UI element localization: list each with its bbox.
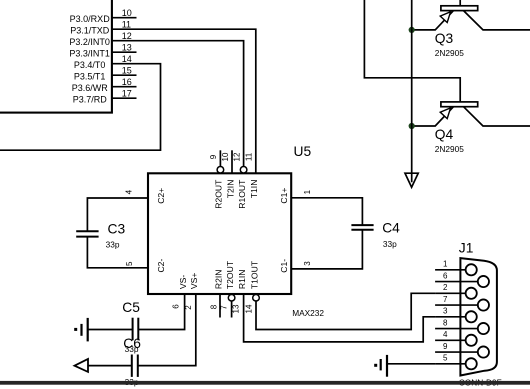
8051 pin 10 P3.0/RXD [70,8,137,24]
svg-text:C1-: C1- [279,259,289,273]
svg-text:R2OUT: R2OUT [214,179,224,209]
svg-text:3: 3 [443,307,448,316]
svg-text:6: 6 [443,271,448,280]
svg-text:T1OUT: T1OUT [249,260,259,289]
svg-text:C1+: C1+ [279,188,289,204]
8051 pin 17 P3.7/RD [73,89,137,105]
vertical rail through Q3/Q4 emitters [411,0,413,182]
U5 pin 7 T2OUT stub [220,260,235,317]
8051 pin 12 P3.2/INT0 [69,31,136,47]
wire C6 to arrow [87,365,132,367]
U5 pin 4 C2+ stub [124,188,165,204]
svg-text:C5: C5 [122,300,140,315]
svg-text:8: 8 [210,304,219,309]
svg-text:2N2905: 2N2905 [435,144,464,154]
J1 pin 3 [435,307,477,323]
svg-text:11: 11 [245,152,254,161]
wire P3.2/INT0 to U5 R1OUT bubble [137,41,244,167]
svg-text:P3.0/RXD: P3.0/RXD [70,14,111,24]
junction dot Q3 emitter [409,27,415,33]
svg-text:7: 7 [220,305,229,310]
8051 pin 14 P3.4/T0 [74,54,137,70]
capacitor C6 [123,336,141,387]
J1 pin 5 [435,354,477,370]
svg-text:C3: C3 [108,222,126,237]
ground arrow at C6 [75,359,89,372]
svg-text:10: 10 [221,152,230,161]
power terminal at C5 [74,318,88,342]
svg-text:5: 5 [125,261,134,266]
svg-text:14: 14 [245,304,254,313]
svg-text:P3.4/T0: P3.4/T0 [74,60,106,70]
svg-text:9: 9 [443,342,448,351]
J1 pin 1 [435,260,477,276]
svg-text:6: 6 [172,304,181,309]
svg-text:16: 16 [122,77,132,87]
8051 pin 11 P3.1/TXD [70,20,136,36]
svg-text:P3.1/TXD: P3.1/TXD [70,26,110,36]
J1 pin 6 [435,271,489,287]
svg-text:12: 12 [232,152,241,161]
J1 pin 8 [435,318,489,334]
svg-text:9: 9 [209,154,218,159]
transistor Q3 2N2905 [412,0,530,58]
U5 pin 2 VS+ stub [138,273,199,366]
svg-text:VS+: VS+ [189,273,199,289]
wire P3.1/TXD to U5 T1IN [137,29,256,173]
transistor Q4 2N2905 [364,0,530,154]
svg-text:T2IN: T2IN [225,180,235,199]
svg-text:T2OUT: T2OUT [225,260,235,289]
U5 pin 8 R2IN stub [210,270,224,318]
junction dot Q4 emitter [409,123,415,129]
capacitor C4 [291,198,400,269]
wire U5 R1IN to J1 pin 3 [244,294,436,342]
svg-text:4: 4 [443,330,448,339]
svg-text:VS-: VS- [178,275,188,289]
8051 port box [0,0,112,113]
svg-text:U5: U5 [294,144,312,159]
svg-text:J1: J1 [459,241,474,256]
svg-text:12: 12 [122,31,132,41]
svg-text:13: 13 [232,304,241,313]
capacitor C5 [122,300,140,354]
svg-text:3: 3 [303,261,312,266]
U5 pin 3 C1- stub [279,259,312,273]
svg-text:MAX232: MAX232 [292,308,324,318]
svg-text:8: 8 [443,318,448,327]
bottom border bar [0,381,530,385]
svg-text:P3.5/T1: P3.5/T1 [74,72,106,82]
svg-text:11: 11 [122,20,131,30]
svg-text:C4: C4 [382,220,400,235]
connector J1 CONN-D9F [459,241,497,376]
8051 pin 15 P3.5/T1 [74,66,137,82]
svg-text:1: 1 [303,189,312,194]
svg-text:C6: C6 [123,336,141,351]
power terminal at J1 pin 5 [374,355,387,377]
svg-text:P3.7/RD: P3.7/RD [73,95,108,105]
capacitor C3 [76,198,148,268]
U5 pin 13 R1IN stub [232,270,247,314]
U5 pin 12 R1OUT stub [232,152,247,209]
U5 pin 10 T2IN stub [221,150,236,198]
wire C5 to terminal [88,329,133,331]
svg-text:P3.6/WR: P3.6/WR [72,83,109,93]
svg-text:Q4: Q4 [435,127,454,142]
ground arrow below rail [405,173,418,187]
svg-text:C2-: C2- [156,259,166,273]
svg-text:15: 15 [122,66,132,76]
wire P3.4/T0 to left edge [0,64,161,151]
svg-text:17: 17 [122,89,132,99]
svg-text:T1IN: T1IN [249,180,259,199]
svg-text:C2+: C2+ [156,188,166,204]
svg-text:R1OUT: R1OUT [237,179,247,209]
svg-text:14: 14 [122,54,132,64]
U5 pin 14 T1OUT stub [245,260,260,313]
8051 pin 16 P3.6/WR [72,77,137,93]
8051 pin 13 P3.3/INT1 [69,43,136,59]
svg-text:R1IN: R1IN [237,270,247,290]
U5 pin 5 C2- stub [125,259,166,273]
svg-text:4: 4 [124,189,133,194]
J1 pin 4 [435,330,477,346]
svg-text:33p: 33p [383,239,397,249]
U5 pin 11 T1IN stub [245,152,260,198]
svg-text:2N2905: 2N2905 [435,48,464,58]
J1 pin 2 [435,283,477,299]
svg-text:7: 7 [443,295,448,304]
op-amp U5 MAX232 box [148,173,291,294]
svg-text:13: 13 [122,43,132,53]
U5 pin 6 VS- stub [138,275,188,330]
svg-text:5: 5 [443,354,448,363]
svg-text:Q3: Q3 [435,31,454,46]
svg-text:P3.2/INT0: P3.2/INT0 [69,37,110,47]
svg-text:33p: 33p [106,239,120,249]
J1 pin 9 [435,342,489,358]
wire J1 pin 5 to power terminal [387,363,435,365]
J1 pin 7 [435,295,489,311]
U5 pin 9 R2OUT stub [209,150,224,208]
U5 pin 1 C1+ stub [279,188,312,204]
svg-text:R2IN: R2IN [213,270,223,290]
svg-text:P3.3/INT1: P3.3/INT1 [69,49,110,59]
wire U5 T1OUT to J1 pin 2 [256,293,435,329]
svg-text:2: 2 [443,283,448,292]
svg-text:2: 2 [184,305,193,310]
svg-text:1: 1 [443,260,448,269]
svg-text:10: 10 [122,8,132,18]
